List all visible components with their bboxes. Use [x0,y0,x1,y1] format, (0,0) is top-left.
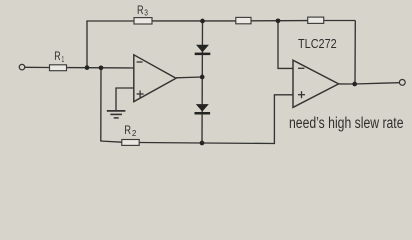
svg-text:1: 1 [62,55,65,64]
svg-text:need’s high slew rate: need’s high slew rate [289,115,404,132]
svg-text:R: R [54,49,60,63]
svg-text:TLC272: TLC272 [298,36,337,51]
svg-text:2: 2 [132,129,137,138]
svg-text:R: R [137,3,144,17]
svg-text:R: R [124,123,131,137]
svg-text:3: 3 [144,9,148,18]
